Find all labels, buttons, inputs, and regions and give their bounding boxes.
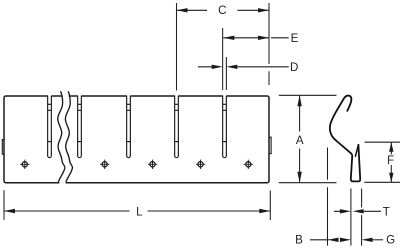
right edge extension line (C/E)	[268, 3, 270, 85]
dimension A bottom extension line	[279, 182, 337, 184]
break squiggle line 2	[65, 91, 72, 182]
strip body outline (front view)	[4, 96, 269, 183]
dimension F line	[390, 142, 392, 182]
mounting hole 5	[244, 160, 253, 169]
dimension D extension line (slot 5 right)	[225, 57, 227, 90]
mounting hole 2	[100, 160, 109, 169]
dimension B arrows	[328, 238, 339, 242]
dimension T line	[334, 210, 381, 212]
svg-text:A: A	[296, 135, 304, 147]
dimension E extension line (slot 5 left)	[222, 28, 224, 90]
dimension B/T extension line (mount face)	[350, 189, 352, 246]
dimension D arrows	[212, 65, 223, 69]
svg-text:T: T	[383, 206, 390, 218]
slot 3	[127, 96, 131, 158]
slot 5	[223, 96, 227, 158]
slot 4	[175, 96, 179, 158]
dimension A line	[299, 95, 301, 182]
svg-text:L: L	[136, 207, 143, 219]
dimension L arrows	[4, 209, 15, 213]
svg-text:B: B	[295, 235, 303, 247]
dimension L left extension line	[3, 190, 5, 220]
svg-text:D: D	[290, 62, 298, 74]
svg-text:E: E	[291, 33, 299, 45]
left end tab	[2, 140, 4, 155]
dimension L right extension line	[269, 191, 271, 221]
mounting hole 1	[20, 160, 29, 169]
dimension C arrows	[177, 8, 188, 12]
dimension A top extension line	[279, 94, 337, 96]
white-outs for slot openings on top edge	[48, 94, 227, 185]
right end tab	[269, 137, 271, 153]
dimension F top extension line	[365, 141, 400, 143]
clip barb (sheared end)	[355, 145, 358, 156]
slot 1	[48, 96, 52, 158]
svg-text:G: G	[386, 235, 395, 247]
dimension G line	[373, 239, 383, 241]
dimension G extension line	[361, 189, 363, 246]
dimension C line	[177, 9, 270, 11]
dimension E line	[223, 37, 288, 39]
svg-text:C: C	[218, 5, 226, 17]
dimension G arrow	[362, 238, 373, 242]
break squiggle line 1	[58, 91, 65, 182]
mounting hole 4	[196, 160, 205, 169]
dimension C extension line (slot 4)	[176, 3, 178, 91]
dimension T arrows	[340, 209, 351, 213]
mounting hole 3	[148, 160, 157, 169]
spring clip profile (side view)	[330, 96, 360, 182]
svg-text:F: F	[387, 155, 394, 167]
dimension F bottom extension line	[364, 181, 400, 183]
dimension B left extension line (clip back)	[327, 148, 329, 246]
dimension L line	[4, 210, 270, 212]
dimension B line	[310, 239, 329, 241]
dimension E arrows	[223, 36, 234, 40]
dimension A arrows	[297, 95, 301, 106]
dimension D line	[198, 66, 289, 68]
dimension F arrows	[389, 142, 393, 152]
slot 2	[78, 96, 82, 158]
